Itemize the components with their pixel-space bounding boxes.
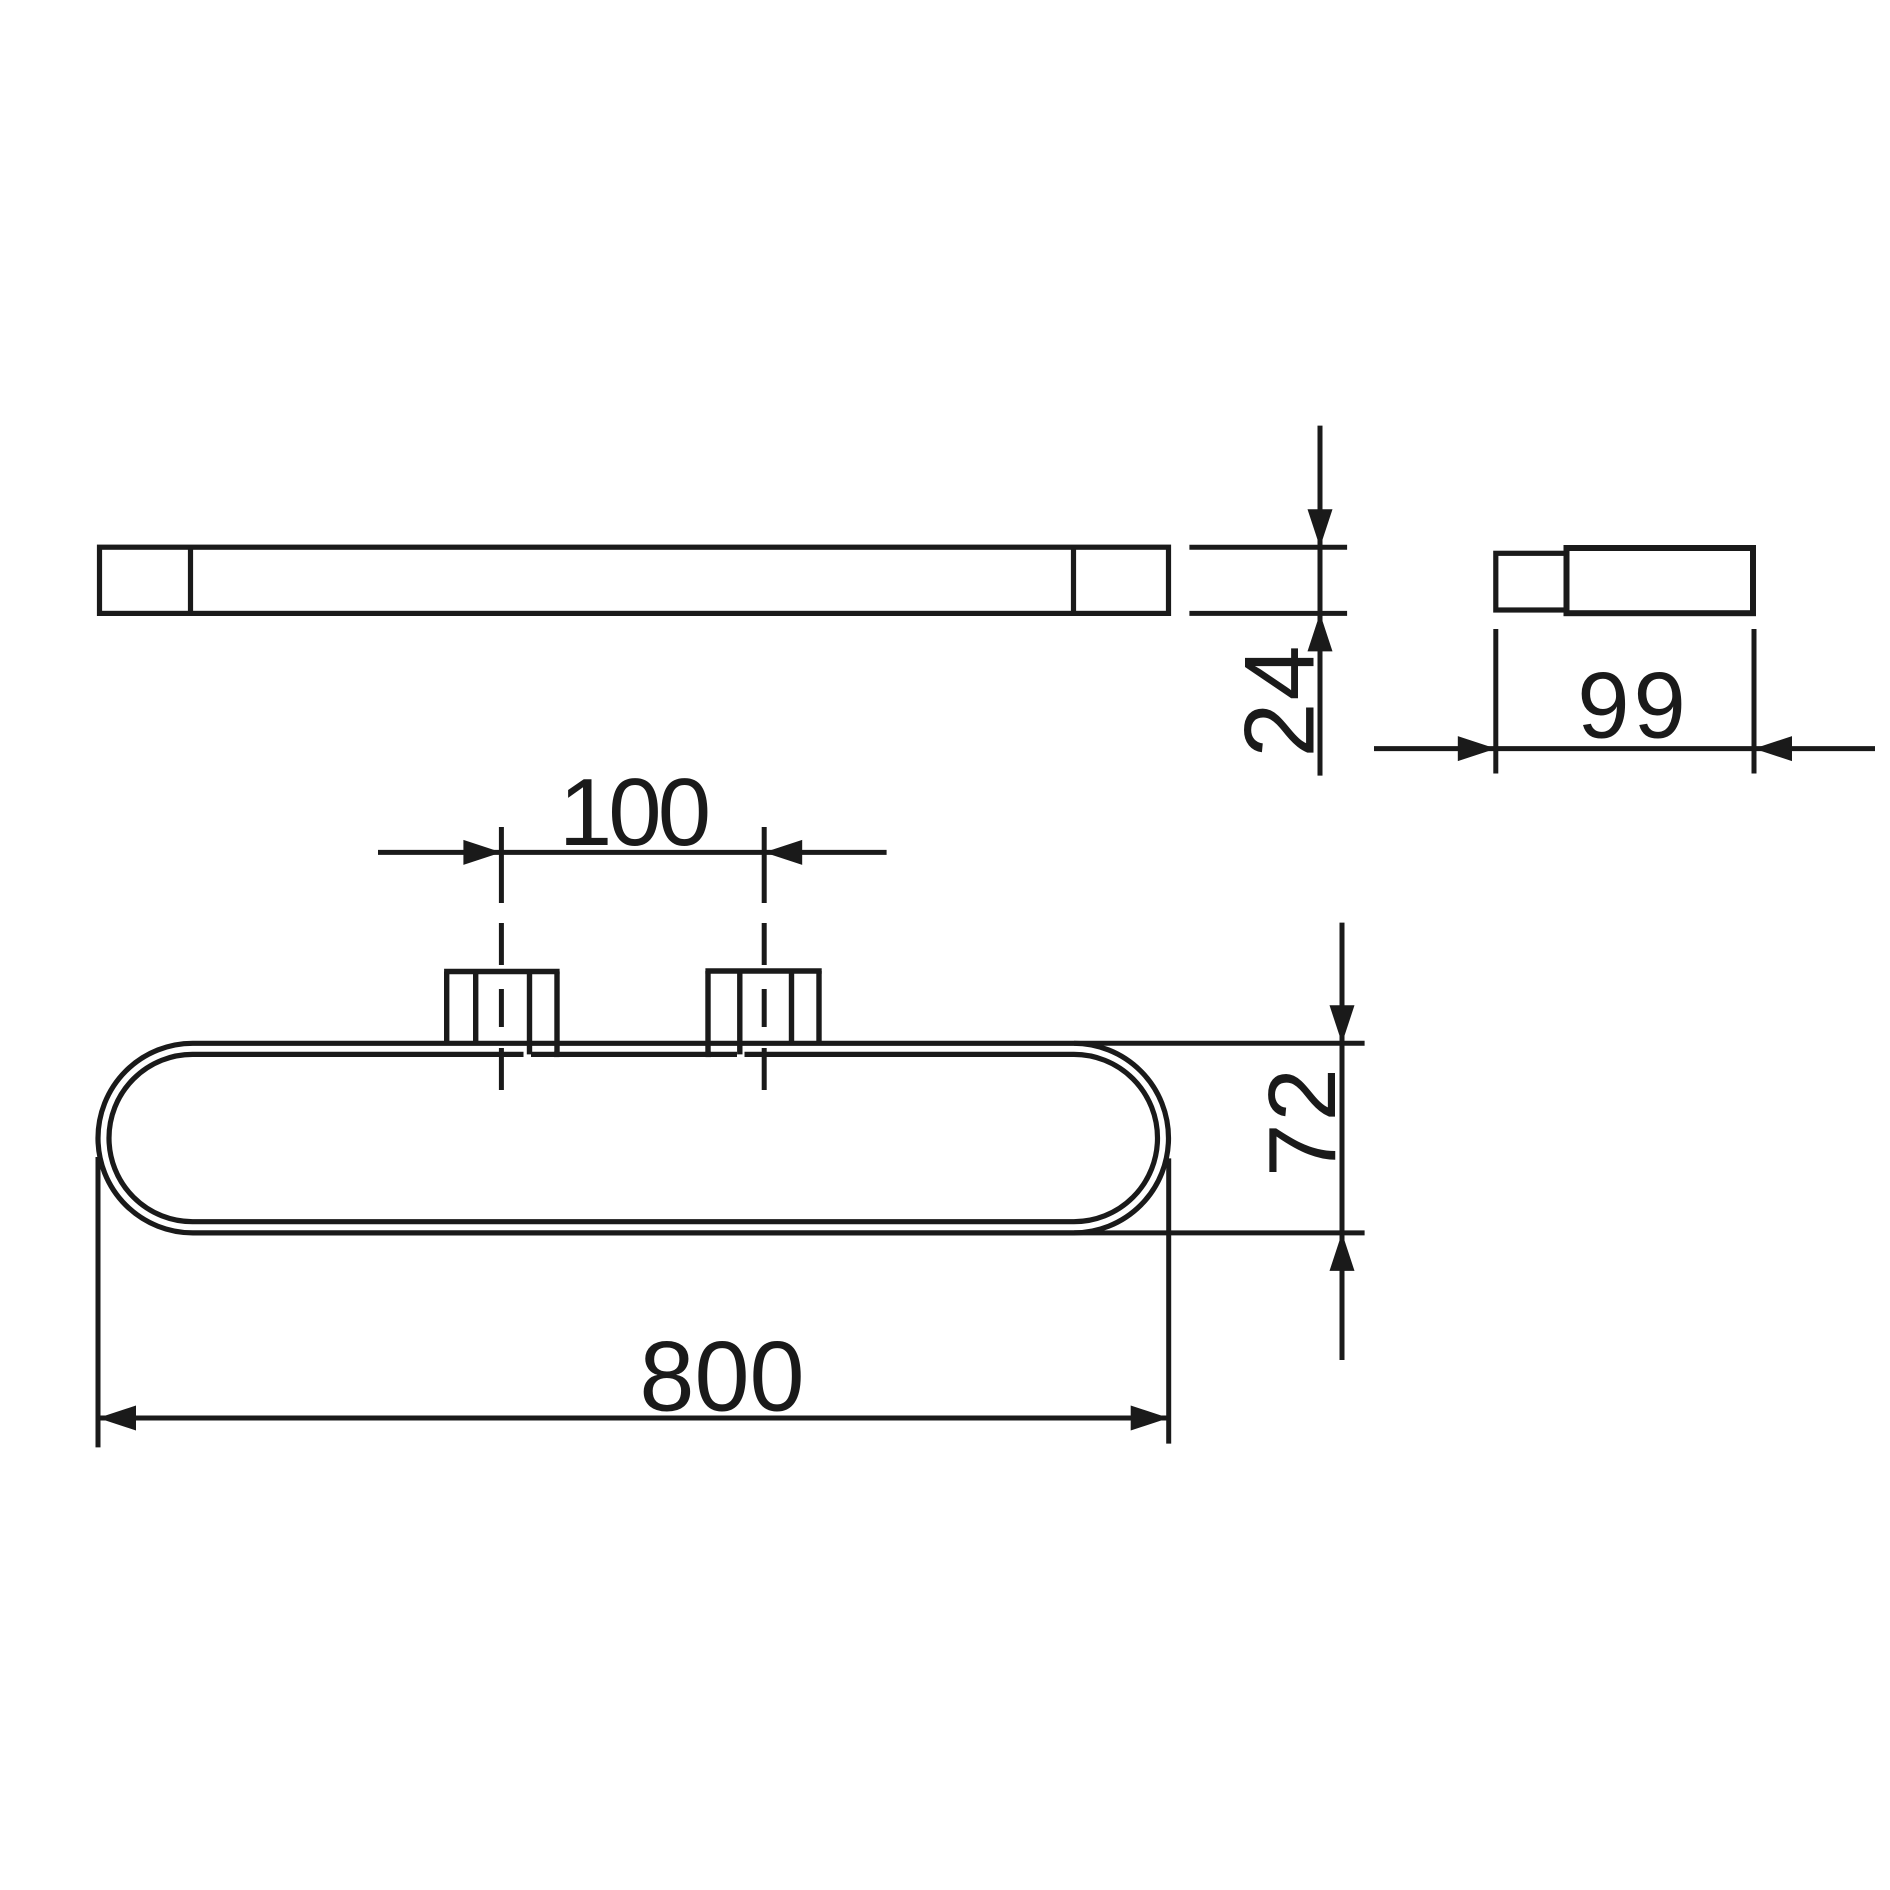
side view body rectangle (1567, 548, 1754, 613)
dimension 99 extension line right (1752, 629, 1757, 774)
dimension 800 extension line left (96, 1157, 101, 1447)
dimension 72 extension line bottom (1074, 1230, 1365, 1235)
svg-text:24: 24 (1224, 643, 1335, 757)
dimension 800 arrowhead right (1131, 1406, 1169, 1431)
dimension 99 arrowhead left (1754, 736, 1792, 761)
svg-text:100: 100 (559, 759, 708, 866)
left bracket centerline (499, 827, 504, 1090)
top view rail outline (100, 547, 1169, 613)
dimension 72 extension line top (1074, 1041, 1365, 1046)
right mounting bracket (705, 971, 821, 1054)
dimension 24 arrowhead up (1308, 613, 1333, 651)
dimension 99 dimension line (1374, 746, 1875, 751)
front view outer stadium outline (98, 1043, 1169, 1233)
front view inner stadium outline (109, 1054, 1158, 1221)
dimension 800 dimension line (98, 1416, 1169, 1421)
svg-text:72: 72 (1249, 1066, 1356, 1177)
svg-text:800: 800 (639, 1321, 804, 1432)
dimension 100 arrowhead right (463, 840, 501, 865)
dimension 800 arrowhead left (98, 1406, 136, 1431)
svg-text:99: 99 (1577, 653, 1690, 758)
dimension 24 extension line bottom (1189, 611, 1347, 616)
dimension 72 label (1249, 1066, 1356, 1177)
dimension 72 dimension line (1340, 923, 1345, 1360)
inner line gap under left bracket (524, 1050, 532, 1060)
dimension 24 arrowhead down (1308, 509, 1333, 547)
side view end-cap small rectangle (1496, 553, 1567, 610)
right bracket centerline (762, 827, 767, 1090)
top view left end-cap division line (188, 547, 193, 613)
inner line gap under right bracket (737, 1050, 745, 1060)
dimension 100 arrowhead left (764, 840, 802, 865)
dimension 72 arrowhead down (1330, 1005, 1355, 1043)
dimension 100 dimension line (378, 850, 887, 855)
dimension 800 extension line right (1166, 1158, 1171, 1443)
dimension 72 arrowhead up (1330, 1233, 1355, 1271)
left mounting bracket (444, 972, 559, 1055)
dimension 99 extension line left (1493, 629, 1498, 774)
dimension 24 extension line top (1189, 545, 1347, 550)
dimension 99 arrowhead right (1458, 736, 1496, 761)
top view right end-cap division line (1071, 547, 1076, 613)
dimension 24 dimension line (1318, 426, 1323, 776)
dimension 24 label (1224, 643, 1335, 757)
